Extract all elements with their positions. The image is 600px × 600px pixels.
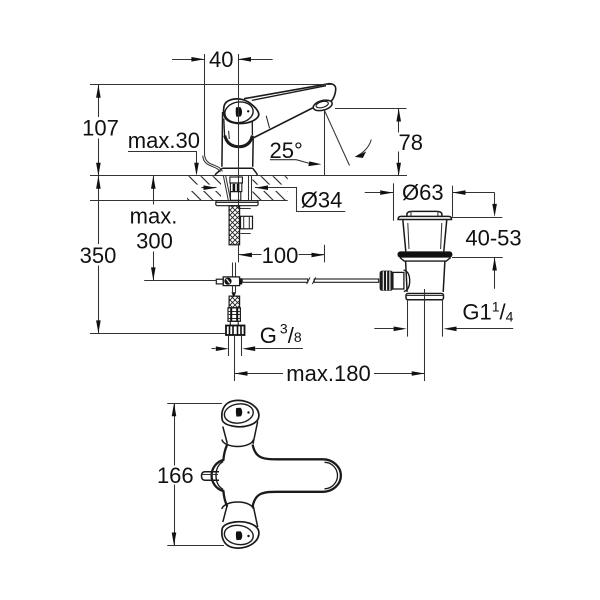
bottom view: top knob skirt: [223, 422, 258, 444]
100-dim extension line below shank: [238, 245, 240, 262]
text mask 100: [262, 246, 299, 265]
shank hex nut: [241, 216, 253, 229]
bottom view: body outline: [212, 445, 341, 507]
faucet body left edge: [221, 112, 224, 167]
bottom view: bottom knob D mark: [236, 531, 242, 540]
pop-up waste: upper body taper: [403, 220, 447, 252]
dim O63 left extension line: [393, 183, 395, 220]
dim 100 line: [239, 254, 325, 256]
svg-text:max.30: max.30: [128, 128, 200, 153]
dim max300 vertical line: [153, 176, 155, 281]
handle top far edge with rounded tip: [244, 84, 336, 102]
svg-text:166: 166: [157, 463, 194, 488]
pipe below nut: [229, 335, 242, 356]
counter bottom surface line: [90, 200, 288, 202]
pop-up waste: body bulge at lever: [404, 270, 410, 292]
text mask 78: [386, 133, 412, 152]
pop-up waste: O-ring (black): [398, 251, 453, 257]
spout underside diagonal: [253, 108, 313, 138]
text mask max300: [127, 205, 181, 252]
bottom view: left circle arc detail: [216, 462, 223, 490]
counter cross-section hatch right band: [253, 176, 288, 200]
pop-up waste: knurled knob (dark): [380, 271, 393, 291]
aerator outer ellipse: [312, 98, 333, 112]
lever hole D-shaped dark mark: [236, 107, 242, 117]
faucet base flange: [215, 168, 257, 175]
mounting bolt right (vertical): [249, 176, 252, 201]
waste centerline / max180 right extension: [424, 289, 426, 381]
lever knob outer outline: [224, 99, 259, 124]
dim 166 vertical line: [174, 403, 176, 545]
dim O34 left arrow: [201, 187, 216, 189]
pop-up waste: bottom collar: [406, 294, 444, 300]
horizontal pull rod segment 2: [314, 279, 379, 282]
bottom view: bottom knob dot: [247, 535, 249, 537]
dim G3/8 left arrow: [212, 348, 216, 350]
fitting right stub (dark): [240, 278, 243, 284]
bottom view: top knob dot: [247, 411, 249, 413]
counter top surface line: [90, 175, 407, 177]
bottom view: 166 bottom extension line: [167, 545, 224, 547]
knob bottom thick arc: [225, 136, 253, 147]
dim 107 top extension line: [90, 84, 333, 86]
text mask 107: [82, 117, 119, 139]
fitting screw head dark circle: [224, 278, 231, 285]
text mask O63: [400, 183, 447, 202]
svg-text:107: 107: [82, 116, 119, 141]
hose neck: [230, 321, 238, 325]
tube below fitting: [233, 286, 236, 293]
handle top near edge: [252, 86, 326, 101]
dim 78 top extension line: [335, 108, 407, 110]
dim 100 right extension line: [324, 245, 326, 262]
G3/8 nut: [226, 326, 245, 336]
cartridge middle box: [230, 183, 241, 192]
svg-text:300: 300: [136, 228, 173, 253]
dim O63 right arrow: [453, 192, 495, 194]
pop-up waste: tailpipe walls: [408, 300, 443, 337]
hose centerline / max180 left extension: [234, 335, 236, 381]
knob skirt left edge: [223, 119, 226, 137]
bottom view: spout end inner arc: [325, 462, 338, 489]
dim O34 right arrow and leader: [255, 188, 345, 212]
svg-text:25°: 25°: [270, 138, 303, 163]
svg-text:Ø63: Ø63: [402, 180, 444, 205]
bottom view: left rod: [202, 472, 220, 480]
knob skirt shading line: [228, 131, 231, 139]
text mask 166: [158, 466, 193, 485]
dim G1 1/4 right arrow: [457, 328, 514, 330]
bottom view: bottom knob skirt: [223, 505, 258, 527]
bottom view: 166 top extension line: [167, 403, 222, 405]
pop-up rod tube below shank: [233, 263, 236, 277]
bottom view: bottom knob outer outline: [222, 522, 259, 548]
dim 40-53 top extension line: [451, 217, 503, 219]
mounting washer plate: [216, 201, 258, 206]
hose cross-hatch box: [229, 296, 240, 308]
aerator inner ellipse: [315, 100, 329, 109]
dim 350 bottom extension line: [90, 333, 226, 335]
bottom view: bottom knob inner ellipse: [223, 524, 254, 547]
dim max180 line: [235, 373, 425, 375]
cartridge top box: [230, 177, 243, 183]
cartridge lower box: [230, 192, 240, 201]
lever knob top face inner ellipse: [224, 100, 255, 124]
svg-text:Ø34: Ø34: [301, 188, 343, 213]
pop-up rod second outline: [203, 156, 221, 173]
25deg label leader: [270, 160, 311, 164]
spout body shading line: [266, 116, 269, 129]
horizontal pull rod segment 1: [242, 279, 308, 282]
cartridge dark bars: [233, 184, 236, 191]
pop-up waste: lower body: [406, 261, 445, 292]
svg-text:max.: max.: [130, 203, 178, 228]
counter cross-section hatch left band: [187, 176, 221, 200]
svg-text:40-53: 40-53: [465, 226, 521, 251]
svg-text:100: 100: [262, 243, 299, 268]
bottom view: top knob D mark: [236, 408, 242, 417]
dim 107 vertical line: [98, 85, 100, 176]
dim G1 1/4 left arrow: [374, 328, 393, 330]
dim 350 vertical line: [98, 176, 100, 334]
faucet body right edge: [252, 138, 255, 167]
tube taper tip: [231, 292, 236, 296]
knob skirt right edge: [251, 122, 253, 136]
pop-up waste: plug cap: [407, 211, 442, 216]
hose ribbed connector: [228, 308, 240, 322]
rod break marks: [307, 277, 316, 284]
small dot on knob: [247, 110, 249, 112]
dim 40-53 bottom arrow: [494, 258, 496, 289]
bottom view: top knob outer outline: [222, 400, 259, 426]
svg-text:max.180: max.180: [286, 361, 370, 386]
pop-up waste: lever stem: [393, 272, 404, 289]
dim O34 mask strips: [183, 185, 218, 191]
faucet centerline / 40-dim right extension: [238, 54, 240, 209]
pop-up waste: flange below O-ring: [400, 258, 451, 262]
text mask 350: [80, 244, 117, 266]
svg-text:78: 78: [399, 130, 423, 155]
dim 40 arrow lines: [172, 59, 204, 61]
threaded shank (cross-hatch): [229, 206, 240, 245]
dim 40-53 bottom extension line: [452, 257, 503, 259]
dim max300 bottom line: [144, 280, 216, 282]
text mask max180: [283, 365, 374, 383]
fitting left stub: [216, 279, 223, 284]
max30 underline and arrow: [128, 152, 197, 168]
bottom view: top knob inner ellipse: [223, 402, 254, 425]
25deg slanted line: [325, 111, 350, 166]
25deg vertical reference line: [324, 111, 326, 176]
mounting bolt left (slanted): [223, 176, 230, 200]
svg-text:40: 40: [209, 47, 233, 72]
dim O63 right extension line: [452, 186, 454, 217]
dim 78 vertical line: [398, 109, 400, 176]
25deg arc arrow: [357, 140, 371, 156]
pop-up waste: top flange: [398, 216, 451, 219]
dim 40-53 top arrow: [494, 193, 496, 208]
dim G3/8 right arrow: [255, 348, 303, 350]
bottom view: bottom neck arc: [222, 502, 254, 509]
dim O63 left arrow: [365, 192, 394, 194]
svg-text:350: 350: [80, 243, 117, 268]
cross fitting block: [223, 277, 239, 286]
shank step line: [240, 208, 251, 210]
bottom view: top neck arc: [222, 440, 254, 447]
pop-up rod vertical line / 40-dim left extension: [205, 54, 223, 171]
